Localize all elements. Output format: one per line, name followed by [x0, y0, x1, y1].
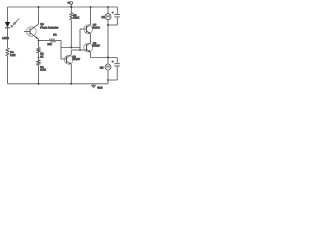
wire node B horizontal — [91, 57, 118, 59]
wire mid branch to bottom rail — [38, 65, 40, 84]
wire Q4 emitter to Q3 collector — [90, 34, 92, 43]
wire between resistors — [38, 53, 40, 60]
resistor R1 — [70, 13, 73, 21]
wire C2 bottom to M2 wire — [108, 79, 117, 81]
LED / photodiode D1 — [5, 22, 10, 28]
node M2/C2 bottom — [107, 79, 109, 81]
resistor R4 (mid branch lower) — [37, 60, 40, 65]
wire Q3 emitter down to node B — [90, 52, 92, 57]
wire R1 top lead — [70, 7, 72, 13]
motor M2 bottom lead — [107, 70, 109, 84]
node B junction — [107, 57, 109, 59]
node M1 at top rail — [107, 6, 109, 8]
svg-text:Gnd: Gnd — [97, 87, 103, 90]
svg-text:R2: R2 — [53, 33, 57, 36]
wire R1 bottom lead down to base net — [70, 20, 72, 48]
svg-text:1K: 1K — [40, 55, 43, 58]
wire C2 bottom lead — [116, 66, 118, 80]
wire bottom rail — [8, 83, 109, 85]
wire C2 top lead — [116, 58, 118, 64]
node Q4 collector at rail — [90, 6, 92, 8]
svg-text:BC547: BC547 — [92, 26, 100, 29]
resistor R3 (mid branch upper) — [37, 48, 40, 53]
wire left side (from top rail to LED) — [7, 7, 9, 22]
wire R2 corner down to Q2 base — [60, 41, 62, 60]
resistor R5 (left branch) — [6, 48, 9, 56]
wire node A down to node B — [107, 25, 109, 58]
wire Q2 emitter to bottom rail — [70, 64, 72, 83]
svg-text:M2: M2 — [100, 67, 104, 70]
wire Q4 base lead — [80, 28, 87, 30]
node Q1 emitter corner — [38, 40, 40, 42]
power +V supply symbol — [67, 2, 72, 8]
svg-text:M1: M1 — [102, 16, 106, 19]
motor M1 — [105, 14, 111, 20]
svg-text:0.1M: 0.1M — [40, 69, 46, 72]
wire Q2 collector to Q3 base net — [71, 49, 86, 51]
svg-text:BC557: BC557 — [92, 45, 100, 48]
svg-text:+V: +V — [67, 2, 70, 5]
wire C1 bottom lead — [116, 17, 118, 25]
motor M1 top lead — [107, 7, 109, 14]
svg-text:100K: 100K — [73, 17, 79, 20]
svg-text:+: + — [112, 11, 114, 15]
wire top rail (+V rail) — [8, 6, 118, 8]
wire Q2 collector up — [70, 50, 72, 55]
capacitor C1 — [114, 15, 120, 17]
wire base net horizontal — [61, 47, 80, 49]
wire vertical to Q4 base — [79, 29, 81, 50]
svg-text:Q1: Q1 — [40, 23, 44, 26]
svg-text:10K: 10K — [47, 43, 52, 46]
wire left side below LED — [7, 28, 9, 48]
node base-net at x80 — [79, 49, 81, 51]
transistor Q4 (upper output) — [84, 24, 93, 34]
motor M1 bottom lead — [107, 20, 109, 25]
node R1 joins base net — [70, 47, 72, 49]
ground symbol — [91, 84, 96, 88]
light arrow 1 into diode — [11, 21, 17, 27]
motor M2 — [105, 64, 111, 70]
svg-text:Photo Detector: Photo Detector — [40, 27, 58, 30]
wire right side C1 top lead — [116, 7, 118, 14]
wire Q4 collector to top rail — [90, 7, 92, 24]
svg-text:2.2K: 2.2K — [10, 54, 15, 57]
transistor Q2 (first amplifier) — [64, 55, 73, 65]
node mid branch at bottom rail — [38, 83, 40, 85]
capacitor C2 — [114, 64, 120, 66]
node +V at top rail — [70, 6, 72, 8]
wire Q1 emitter node down — [38, 39, 40, 47]
svg-text:+: + — [112, 60, 114, 64]
wire left side to bottom rail — [7, 56, 9, 84]
node between R3 and R4 — [38, 57, 40, 59]
wire node A horizontal — [108, 24, 117, 26]
transistor Q1 phototransistor — [24, 24, 39, 39]
motor M2 top lead — [107, 58, 109, 65]
svg-text:BC547: BC547 — [72, 58, 80, 61]
node A — [107, 24, 109, 26]
transistor Q3 (lower output) — [84, 43, 93, 53]
resistor R2 (horizontal) — [39, 40, 50, 42]
light arrow 2 into diode — [14, 18, 20, 24]
wire Q1 collector to top rail — [38, 7, 40, 24]
svg-text:LED1: LED1 — [2, 37, 9, 40]
node Q1 collector at rail — [38, 6, 40, 8]
wire Q2 base lead — [61, 58, 67, 60]
node Q2 emitter at bottom rail — [70, 83, 72, 85]
